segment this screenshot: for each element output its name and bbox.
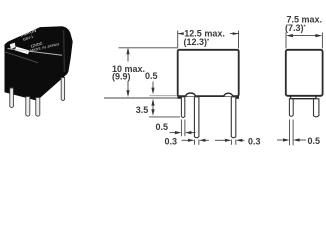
shaft right 0.5 (190, 132, 196, 134)
pin B (194, 97, 199, 138)
arrow right of 12.5 (233, 32, 239, 35)
shaft right pinD (299, 139, 307, 141)
dim line right segment (230, 33, 239, 35)
bottom center step (291, 96, 316, 99)
arrow left at pinB right (199, 139, 206, 142)
ext line side left (285, 33, 287, 49)
arrow left at pinA right (185, 131, 192, 134)
dimension 10 max. left (104, 48, 177, 98)
ext bar pin D left (289, 120, 291, 146)
arrow down 0.5 (151, 88, 154, 95)
dimension 3.5 pin length (149, 103, 180, 117)
relay pin 3 (36, 98, 40, 117)
ext line left top (177, 31, 179, 49)
dim line left segment (178, 33, 182, 35)
relay photo (3D view) (5, 26, 73, 116)
seating plane ext line (104, 97, 177, 99)
shaft left 0.3 B (182, 139, 189, 141)
shaft right 0.3 C (241, 139, 245, 141)
svg-text:(7.3)*: (7.3)* (285, 23, 307, 33)
ext line case top to left (119, 47, 178, 49)
svg-text:0.5: 0.5 (308, 136, 321, 146)
dimension 12.5 max. (178, 31, 239, 49)
svg-text:0.3: 0.3 (248, 136, 261, 146)
relay pin 2 (26, 97, 30, 117)
svg-text:0.3: 0.3 (165, 137, 178, 147)
shaft left 0.5 (170, 132, 177, 134)
arrow right at pinB left (188, 139, 195, 142)
case outline side view (286, 50, 323, 96)
secondary seam highlight (6, 52, 39, 63)
svg-text:3.5: 3.5 (136, 105, 149, 115)
shaft left pinD (277, 139, 284, 141)
pin end ext line (149, 116, 180, 118)
relay body silhouette (5, 26, 73, 100)
bottom right foot (234, 96, 239, 99)
dim line lower segment (127, 81, 129, 95)
dim line 3.5 (152, 103, 154, 111)
ext bar pin C left (230, 140, 232, 145)
bottom left foot (177, 96, 182, 99)
ext line side right (321, 33, 323, 49)
case outline front view (178, 50, 239, 96)
arrow left of 12.5 (178, 32, 184, 35)
ext bar pin D right (292, 120, 294, 146)
dim line upper segment (127, 50, 129, 62)
top-front edge highlight (8, 49, 63, 56)
dim line side (292, 35, 317, 37)
dimension 0.3 pin C (215, 140, 245, 145)
white corner mark (10, 43, 16, 49)
ext bar pin A left (180, 120, 182, 137)
relay pin 4 (61, 78, 64, 101)
arrow up 10max (126, 47, 129, 54)
pin C (231, 97, 236, 138)
arrow shaft down 0.5 (152, 82, 154, 90)
dimension 0.5 pin D (277, 120, 306, 146)
arrow left at pinC right (236, 139, 243, 142)
pin E (314, 99, 319, 117)
arrow up 3.5 (151, 99, 154, 106)
case bottom ext line (gray) (150, 95, 178, 97)
dimension 0.5 pin A width (170, 120, 196, 137)
ext line right top (238, 31, 240, 49)
shaft right 0.3 B (204, 139, 209, 141)
pin D (289, 99, 293, 117)
ext bar pin A right (184, 120, 186, 137)
bottom notch arc 2 (224, 93, 233, 96)
svg-text:0.5: 0.5 (156, 122, 169, 132)
right face sheen (64, 30, 65, 72)
arrow down 3.5 (151, 109, 154, 116)
relay pin 1 (10, 88, 14, 108)
shaft left 0.3 C (215, 139, 226, 141)
bottom notch arc 1 (186, 93, 196, 96)
dimension 7.5 max. (286, 33, 322, 49)
ext bar pin B right (198, 140, 200, 145)
arrow down 10max (126, 90, 129, 97)
ext bar pin C right (235, 140, 237, 145)
svg-text:0.5: 0.5 (145, 71, 158, 81)
svg-text:(12.3)*: (12.3)* (184, 37, 211, 47)
arrow left 7.5 (286, 34, 293, 37)
dimension 0.3 pin B (182, 140, 209, 145)
ext bar pin B left (194, 140, 196, 145)
arrow right at pinA left (175, 131, 182, 134)
white label on top face (15, 47, 30, 55)
arrow right 7.5 (315, 34, 322, 37)
arrow right at pinD left (283, 138, 290, 141)
arrow right at pinC left (225, 139, 232, 142)
pin A (short) (181, 97, 184, 118)
arrow left at pinD right (293, 138, 300, 141)
svg-text:(9.9): (9.9) (112, 71, 131, 81)
